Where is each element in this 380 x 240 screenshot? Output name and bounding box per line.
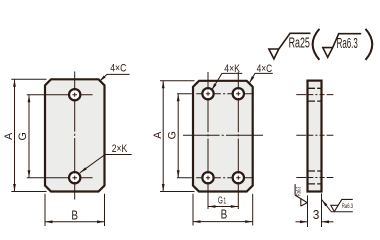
arrow G bottom bbox=[28, 170, 31, 178]
svg-text:3: 3 bbox=[313, 207, 320, 222]
arrow A top middle bbox=[162, 81, 165, 89]
centerline top hole side view bbox=[296, 94, 333, 96]
hidden line bottom hole lower edge bbox=[308, 183, 321, 185]
svg-text:B: B bbox=[221, 206, 228, 221]
dimension line A middle view bbox=[162, 81, 164, 192]
arrow A top bbox=[13, 79, 16, 87]
svg-text:G: G bbox=[17, 132, 29, 140]
centerline bottom hole side view bbox=[296, 177, 333, 179]
dimension line G left view bbox=[28, 95, 30, 178]
arrow B right middle bbox=[245, 220, 253, 223]
surface symbol left of side view (rotated) bbox=[295, 184, 307, 206]
top hole row centerline + G extension middle view bbox=[177, 93, 254, 95]
extension line 3 right bbox=[321, 194, 323, 228]
svg-text:B: B bbox=[71, 207, 78, 222]
vertical centerline left holes middle view bbox=[207, 72, 209, 209]
arrow G top middle bbox=[177, 94, 180, 102]
extension line A top left view bbox=[11, 78, 46, 80]
arrow A bottom middle bbox=[162, 184, 165, 192]
hole bottom-left middle view bbox=[202, 172, 213, 183]
arrow G1 right bbox=[231, 205, 239, 208]
plate front view middle: body outline bbox=[193, 81, 253, 192]
bottom hole centerline + G extension left view bbox=[27, 177, 93, 179]
top surface symbol Ra25 bbox=[269, 33, 311, 59]
arrow G bottom middle bbox=[177, 170, 180, 178]
svg-text:1: 1 bbox=[223, 196, 226, 206]
svg-text:G: G bbox=[218, 195, 223, 206]
leader of right surface symbol bbox=[322, 200, 353, 212]
arrow G1 left bbox=[208, 205, 216, 208]
surface symbol right of side view bbox=[331, 199, 353, 211]
extension line B left (left view) bbox=[44, 194, 46, 226]
hidden line top hole lower edge bbox=[308, 100, 321, 102]
arrow B right bbox=[97, 220, 105, 223]
extension line A top middle view bbox=[160, 80, 195, 82]
svg-text:Ra25: Ra25 bbox=[289, 36, 310, 52]
dimension line 3 right segment bbox=[322, 221, 334, 223]
hole bottom-left-view bbox=[69, 172, 80, 183]
arrow A bottom bbox=[13, 184, 16, 192]
leader 4xC middle view bbox=[249, 73, 273, 83]
open parenthesis bbox=[313, 29, 320, 60]
arrow 3 left bbox=[300, 220, 308, 223]
extension line B right (middle view) bbox=[252, 194, 254, 226]
hole top-right middle view bbox=[233, 88, 244, 99]
svg-text:2×K: 2×K bbox=[112, 143, 128, 155]
bottom hole row centerline + G extension middle view bbox=[177, 177, 254, 179]
plate front view left: body outline bbox=[45, 79, 105, 191]
arrow B left middle bbox=[193, 220, 201, 223]
arrow B left bbox=[45, 220, 53, 223]
dimension line B middle view bbox=[193, 221, 253, 223]
leader arrow right surface symbol bbox=[321, 199, 328, 207]
side view body outline bbox=[308, 81, 322, 192]
top surface symbol Ra6.3 bbox=[323, 34, 361, 58]
dimension line 3 left segment bbox=[296, 221, 308, 223]
hole bottom-right middle view bbox=[233, 172, 244, 183]
leader 4xK middle view bbox=[211, 73, 242, 90]
hole top-left-view bbox=[69, 89, 80, 100]
arrow 3 right bbox=[322, 220, 330, 223]
vertical centerline right holes middle view bbox=[237, 72, 239, 209]
vertical centerline left view bbox=[74, 72, 76, 200]
extension line B left (middle view) bbox=[192, 194, 194, 226]
dimension line A left view bbox=[14, 79, 16, 191]
hidden line top hole upper edge bbox=[308, 87, 321, 89]
dimension line B left view bbox=[45, 221, 105, 223]
leader arrow 4xC middle view bbox=[248, 76, 254, 84]
close parenthesis bbox=[366, 29, 373, 60]
dimension line G middle view bbox=[177, 94, 179, 178]
extension line A bottom middle view bbox=[160, 191, 195, 193]
centerline middle side view bbox=[296, 134, 333, 136]
top hole centerline + G extension left view bbox=[27, 94, 93, 96]
extension line A bottom left view bbox=[11, 191, 46, 193]
leader 4xC left view bbox=[99, 74, 129, 81]
extension line B right (left view) bbox=[104, 194, 106, 226]
svg-text:4×C: 4×C bbox=[110, 63, 126, 75]
svg-text:A: A bbox=[152, 131, 164, 139]
svg-text:Ra6.3: Ra6.3 bbox=[342, 203, 353, 210]
svg-text:A: A bbox=[3, 132, 15, 140]
hidden line bottom hole upper edge bbox=[308, 170, 321, 172]
leader arrow 2xK left view bbox=[79, 167, 87, 174]
horizontal centerline middle view bbox=[183, 134, 263, 136]
svg-text:Ra6.3: Ra6.3 bbox=[296, 187, 303, 196]
leader 2xK left view bbox=[80, 155, 132, 173]
svg-text:Ra6.3: Ra6.3 bbox=[337, 36, 358, 52]
hole top-left middle view bbox=[202, 88, 213, 99]
dimension line G1 middle view bbox=[208, 206, 238, 208]
leader arrow 4xC left view bbox=[98, 75, 105, 82]
arrow G top bbox=[28, 95, 31, 103]
leader arrow 4xK middle view bbox=[210, 83, 216, 91]
svg-text:G: G bbox=[167, 131, 179, 139]
extension line 3 left bbox=[307, 196, 309, 228]
